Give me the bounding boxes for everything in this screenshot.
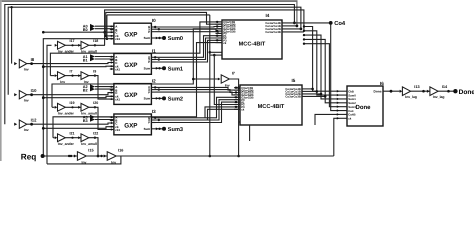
GXP I0 pin B arrow: [111, 28, 113, 30]
MCC I5 pin G0orG0B stub: [234, 89, 240, 91]
junction ckB node: [213, 54, 216, 57]
svg-text:I1: I1: [152, 48, 156, 53]
wire Sum3 port: [156, 128, 165, 130]
MCC I5 pin P1 stub: [234, 101, 240, 103]
arrow Sum0: [156, 37, 159, 40]
GXP I0 pin A stub: [110, 25, 114, 27]
wire chain0 output loop: [105, 10, 304, 45]
junction riser A row2: [42, 96, 45, 99]
svg-text:Sum3: Sum3: [168, 127, 183, 133]
arrow Sum2: [156, 97, 159, 100]
GXP I2 pin A arrow: [111, 86, 113, 88]
svg-text:MCC-4BIT: MCC-4BIT: [258, 104, 285, 110]
wire carry wrap W1 (top, thick): [2, 1, 297, 26]
junction Done out: [390, 90, 393, 93]
wire buffer I12 output: [27, 123, 114, 124]
MCC I5 pin G2orG2B stub: [234, 94, 240, 96]
wire chain0 out to loop: [89, 44, 105, 46]
input arrow chain3 inv2: [78, 136, 81, 139]
GXP I3 pin ck stub: [110, 126, 114, 128]
inverter I7: [58, 72, 66, 80]
svg-text:Done: Done: [459, 89, 474, 96]
junction buffer I12 out: [30, 123, 33, 126]
inverter I22: [81, 134, 89, 142]
input arrow buffer I8: [14, 62, 17, 65]
MCC I5 pin P0 stub: [234, 99, 240, 101]
junction MCC I4 pin9: [216, 39, 218, 41]
MCC I4 pin ckB stub: [210, 54, 222, 56]
GXP block I3: [114, 114, 151, 135]
junction carry C1 tap: [303, 25, 305, 27]
wire X1 to MCC I4: [156, 38, 223, 60]
wire X3 to MCC I5: [156, 100, 241, 120]
inverter I18: [81, 41, 89, 49]
svg-text:Inv: Inv: [24, 99, 29, 103]
svg-text:I20: I20: [93, 101, 98, 105]
GXP I2 pin B stub: [110, 89, 114, 91]
wire B2 to GXP: [95, 88, 114, 90]
GXP I0 pin C arrow: [111, 31, 113, 33]
wire chain2 out to next row ck1: [89, 107, 114, 129]
svg-text:P: P: [148, 60, 150, 64]
GXP I0 pin ck stub: [110, 35, 114, 37]
junction C0 crossing: [103, 31, 106, 34]
MCC I5 pin ck stub: [234, 108, 240, 110]
svg-text:Inv: Inv: [24, 128, 29, 132]
svg-text:I15: I15: [88, 149, 93, 153]
GXP I2 pin A stub: [110, 86, 114, 88]
arrow Sum3: [156, 127, 159, 130]
svg-text:ck1: ck1: [115, 128, 120, 132]
junction Sum3: [158, 128, 160, 130]
junction Sum1: [158, 67, 160, 69]
wire Sum1 port: [156, 67, 165, 69]
junction carry C2 tap: [303, 30, 305, 32]
GXP I0 pin ck arrow: [111, 35, 113, 37]
GXP I0 pin X stub: [151, 28, 155, 30]
GXP I0 pin B stub: [110, 29, 114, 31]
GXP I0 pin P stub: [151, 31, 155, 33]
MCC I5 pin P3 stub: [234, 106, 240, 108]
junction I7 input tap: [192, 78, 195, 81]
GXP I1 pin Sum stub: [151, 67, 155, 69]
junction chain0 mid: [71, 44, 73, 46]
svg-text:I2: I2: [152, 78, 156, 83]
wire A0 to GXP: [95, 25, 114, 27]
svg-text:GXP: GXP: [124, 62, 137, 69]
junction MCC I4 pin7: [216, 35, 218, 37]
GXP I1 pin G stub: [151, 56, 155, 58]
svg-text:I4: I4: [266, 13, 270, 18]
junction chain1 mid: [71, 75, 73, 77]
input arrow inverter I13: [400, 90, 403, 93]
buffer I12: [19, 120, 27, 128]
svg-text:I22: I22: [93, 132, 98, 136]
inverter I9: [81, 72, 89, 80]
wire B0 to GXP: [95, 28, 114, 30]
svg-text:B1: B1: [83, 58, 88, 62]
GXP I3 pin ck1 stub: [110, 129, 114, 131]
Done pin Co4 stub: [340, 110, 347, 112]
Done pin Co4B arrow: [337, 113, 339, 116]
svg-text:I8: I8: [31, 57, 35, 62]
svg-text:ck: ck: [223, 41, 227, 45]
GXP I0 pin ck1 arrow: [111, 38, 113, 40]
MCC-4BIT block I5: [240, 85, 302, 125]
junction Sum0: [158, 37, 160, 39]
inverter I14: [430, 87, 438, 96]
svg-text:B0: B0: [83, 28, 88, 32]
wire P0 to MCC I4: [156, 32, 223, 34]
wire I4 ckB down to MCC I5: [214, 55, 240, 104]
wire A1 to GXP: [95, 56, 114, 58]
MCC I5 pin G1orG1B stub: [234, 92, 240, 94]
port dot Sum1: [162, 66, 166, 70]
svg-text:Sum1: Sum1: [168, 66, 183, 72]
junction chain3 mid: [71, 137, 73, 139]
svg-text:P: P: [148, 30, 150, 34]
svg-text:Co4: Co4: [334, 20, 346, 27]
svg-text:I18: I18: [93, 39, 98, 43]
svg-text:Sum0: Sum0: [168, 36, 183, 42]
wire row3 ck feed: [43, 127, 114, 129]
svg-text:Req: Req: [21, 153, 36, 162]
svg-text:P: P: [148, 121, 150, 125]
svg-text:GXP: GXP: [124, 92, 137, 99]
GXP I1 pin ck1 stub: [110, 68, 114, 70]
junction third loop at ck1: [106, 37, 109, 40]
wire carry wrap W3: [8, 7, 301, 95]
Done pin Sum2 stub: [340, 102, 347, 104]
wire chain1 out to next row ck1: [89, 76, 114, 100]
svg-text:I16: I16: [118, 149, 123, 153]
svg-text:I19: I19: [70, 101, 75, 105]
wire B3 to GXP: [95, 119, 114, 121]
Done pin CkB arrow: [337, 90, 339, 93]
wire ck0 tap to GXP I0 ck pin: [106, 35, 114, 37]
wire third I0 loop top: [107, 14, 210, 16]
GXP I3 pin A stub: [110, 116, 114, 118]
junction X0 tap: [158, 28, 160, 30]
wire chain3 out down to Req wire: [89, 138, 98, 156]
svg-text:Sum2: Sum2: [168, 97, 183, 103]
svg-text:I7: I7: [232, 72, 235, 76]
svg-text:Co3orCo3B: Co3orCo3B: [285, 95, 300, 99]
MCC I4 pin ck stub: [210, 51, 222, 53]
junction G2 tap: [154, 86, 156, 88]
GXP I1 pin ck stub: [110, 65, 114, 67]
junction X3 tap: [158, 119, 160, 121]
wire G2 to MCC I5: [156, 87, 241, 90]
wire Done pin7 feed: [315, 114, 340, 125]
inverter I15: [77, 152, 86, 161]
svg-text:I21: I21: [70, 132, 75, 136]
junction G3 tap: [154, 117, 156, 119]
GXP I2 pin ck arrow: [111, 95, 113, 97]
inverter I16: [107, 152, 116, 161]
svg-text:Sum: Sum: [144, 127, 151, 131]
junction Req chain tap2: [70, 155, 72, 157]
GXP I0 pin A arrow: [111, 25, 113, 27]
junction carry C4 tap: [303, 38, 305, 40]
wire buffer I10 output: [27, 93, 114, 95]
wire carry C5 down to Done: [304, 44, 340, 107]
MCC I4 pin P2 stub: [216, 37, 223, 39]
wire X0 to MCC I4: [156, 29, 223, 31]
wire chain1 mid: [65, 75, 81, 77]
wire MCC I5 pin9 feed: [205, 107, 240, 118]
wire G3 to MCC I5: [156, 97, 241, 118]
wire row2 ck feed: [43, 96, 114, 97]
Done block I6: [347, 86, 383, 126]
wire Co3 wrap stub: [282, 31, 304, 33]
wire Co4 down to Done: [331, 25, 340, 111]
inverter I13: [402, 87, 410, 96]
port dot Req: [41, 154, 45, 158]
junction W2/Co4 line: [293, 22, 296, 25]
svg-text:I10: I10: [31, 88, 37, 93]
port B2 marker: [90, 87, 95, 92]
input arrow chain0 inv2: [78, 44, 81, 47]
wire chain3 mid: [65, 137, 81, 139]
port A1 marker: [90, 54, 95, 59]
input arrow chain0 inv1: [55, 44, 58, 47]
input arrow chain2 inv2: [78, 106, 81, 109]
wire to Done port: [438, 90, 455, 92]
port dot Sum0: [162, 36, 166, 40]
GXP I3 pin ck1 arrow: [111, 128, 113, 130]
inverter I20: [81, 103, 89, 111]
junction before Done port: [447, 90, 450, 93]
GXP I1 pin C arrow: [111, 61, 113, 63]
junction I7 out at I5 Cin: [237, 86, 240, 89]
arrow Sum1: [156, 67, 159, 70]
junction chain3/Req wire: [97, 155, 100, 158]
wire P3 to MCC I5: [156, 102, 241, 122]
svg-text:I7: I7: [70, 69, 73, 73]
junction chain3 out: [94, 137, 96, 139]
GXP I3 pin Sum stub: [151, 128, 155, 130]
GXP I1 pin B stub: [110, 59, 114, 61]
junction I5 Co2 at bus: [316, 90, 319, 93]
wire Req main: [45, 155, 334, 157]
wire MCC I5 Co3 join: [302, 93, 321, 95]
svg-text:I3: I3: [152, 109, 156, 114]
GXP I2 pin C arrow: [111, 91, 113, 93]
svg-text:Sum: Sum: [144, 97, 151, 101]
wire carry wrap W4 riser: [11, 7, 13, 63]
GXP I3 pin P stub: [151, 122, 155, 124]
wire chain1 input: [50, 75, 54, 77]
wire Sum2 port: [156, 97, 165, 99]
junction buffer I10 out: [30, 93, 33, 96]
GXP I0 pin Sum stub: [151, 37, 155, 39]
MCC I5 bottom stub: [249, 125, 251, 141]
input arrow inverter I14: [427, 90, 430, 93]
wire A3 to GXP: [95, 116, 114, 118]
MCC I4 pin P0 stub: [216, 32, 223, 34]
MCC-4BIT block I4: [222, 20, 282, 59]
wire Done output: [383, 90, 400, 92]
wire Req riser A (x43.3): [43, 39, 114, 156]
wire Req riser B (x47): [47, 45, 52, 164]
junction Req chain tap1: [68, 155, 70, 157]
junction C0 at riser: [42, 31, 45, 34]
wire chain2 input: [52, 106, 55, 108]
junction I5 Co3 at bus: [320, 93, 323, 96]
inverter I7: [221, 75, 229, 83]
buffer I8: [19, 59, 27, 67]
junction MCC I5 pin3: [235, 91, 237, 93]
svg-text:MCC-4BIT: MCC-4BIT: [239, 42, 266, 48]
GXP I2 pin ck1 arrow: [111, 98, 113, 100]
wire A2 to GXP: [95, 86, 114, 88]
wire MCC I5 Co4 join: [302, 95, 325, 97]
port A3 marker: [90, 115, 95, 120]
wire I13 to I14: [411, 90, 430, 92]
junction G0 tap: [154, 26, 156, 28]
GXP I0 pin ck1 stub: [110, 38, 114, 40]
junction chain1 out: [94, 74, 96, 76]
input arrow inverter I16: [104, 155, 107, 158]
svg-text:I0: I0: [152, 18, 156, 23]
svg-text:Inv_ander: Inv_ander: [58, 142, 75, 146]
GXP I2 pin X stub: [151, 89, 155, 91]
svg-text:GXP: GXP: [124, 122, 137, 129]
wire Sum0 port: [156, 37, 165, 39]
svg-text:ck: ck: [241, 108, 245, 112]
Done pin CkB stub: [340, 90, 347, 92]
window top edge: [0, 0, 298, 2]
input arrow I7: [218, 78, 221, 81]
GXP I3 pin B arrow: [111, 119, 113, 121]
svg-text:Inv: Inv: [82, 160, 87, 164]
junction X1 tap: [158, 58, 160, 60]
GXP block I2: [114, 84, 151, 105]
wire carry wrap W2: [5, 5, 295, 125]
junction X2 tap: [158, 88, 160, 90]
wire G0 to MCC I4: [156, 26, 223, 29]
port A2 marker: [90, 84, 95, 89]
junction MCC I5 pin7: [235, 101, 237, 103]
svg-text:Inv: Inv: [84, 80, 89, 84]
GXP I2 pin G stub: [151, 86, 155, 88]
junction W3/Co2 line: [300, 28, 303, 31]
wire Co1 wrap stub: [282, 25, 297, 27]
svg-text:Done: Done: [356, 104, 372, 111]
wire Co4 to port: [282, 22, 331, 24]
svg-text:B3: B3: [83, 119, 88, 123]
svg-text:I13: I13: [414, 85, 419, 89]
port dot Co4: [329, 21, 333, 25]
port B1 marker: [90, 57, 95, 62]
junction I13 out: [422, 90, 425, 93]
wire C0 feed: [43, 31, 114, 33]
port A0 marker: [90, 24, 95, 29]
Done pin Co4 arrow: [337, 109, 339, 112]
port B0 marker: [90, 26, 95, 31]
MCC I4 pin G1orG1B stub: [216, 26, 223, 28]
Done pin Co4B stub: [340, 113, 347, 115]
wire carry C2 down to Done: [304, 31, 340, 95]
wire P2 to MCC I5: [156, 92, 241, 95]
junction riser A row1: [42, 65, 45, 68]
GXP I2 pin B arrow: [111, 89, 113, 91]
input arrow chain1 inv2: [78, 74, 81, 77]
junction I7 out at Req wire: [237, 155, 240, 158]
svg-text:ck1: ck1: [115, 97, 120, 101]
wire MCC I5 Co2 join: [302, 90, 317, 92]
svg-text:I9: I9: [93, 69, 96, 73]
MCC I4 pin G0orG0B stub: [216, 23, 223, 25]
GXP I2 pin ck stub: [110, 95, 114, 97]
Done pin Sum0 stub: [340, 94, 347, 96]
wire chain3 input: [53, 137, 55, 139]
junction MCC I4 pin5: [216, 30, 218, 32]
junction carry C3 tap: [303, 34, 305, 36]
input arrow chain2 inv1: [55, 106, 58, 109]
svg-text:I14: I14: [442, 85, 448, 89]
svg-text:B2: B2: [83, 88, 88, 92]
svg-text:Sum: Sum: [144, 36, 151, 40]
junction ck riser at Req wire: [209, 155, 212, 158]
wire carry C4 down to Done: [304, 39, 340, 102]
GXP I3 pin C arrow: [111, 122, 113, 124]
Done pin Sum0 arrow: [337, 94, 339, 97]
wire carry C3 down to Done: [304, 35, 340, 99]
wire G1 to MCC I4: [156, 36, 223, 58]
wire ck loop row3: [53, 43, 222, 138]
inverter I21: [58, 134, 66, 142]
svg-text:Inv_amull: Inv_amull: [81, 142, 97, 146]
MCC I4 pin P3 stub: [216, 39, 223, 41]
wire X2 to MCC I5: [156, 90, 241, 93]
svg-text:Inv_ander: Inv_ander: [58, 112, 75, 116]
Done pin Sum3 stub: [340, 106, 347, 108]
port dot Done: [453, 89, 457, 93]
wire buffer I8 output: [27, 63, 114, 64]
wire third I0 loop: [209, 15, 211, 156]
wire row1 ck feed: [43, 65, 114, 68]
junction Co1/W1: [296, 25, 299, 28]
junction W4/W3 tee: [10, 6, 12, 8]
input arrow buffer I10: [14, 93, 17, 96]
GXP block I1: [114, 54, 151, 75]
wire Req to Done riser: [334, 118, 340, 156]
MCC I5 pin G3orG3B stub: [234, 96, 240, 98]
junction chain0 out: [94, 44, 96, 46]
Done pin ck arrow: [337, 117, 339, 120]
GXP I1 pin B arrow: [111, 59, 113, 61]
port dot Sum3: [162, 127, 166, 131]
GXP I1 pin A stub: [110, 56, 114, 58]
svg-text:I12: I12: [31, 118, 37, 123]
GXP I2 pin C stub: [110, 92, 114, 94]
MCC I5 pin P2 stub: [234, 104, 240, 106]
svg-text:I17: I17: [70, 39, 75, 43]
junction riser A row3: [42, 127, 45, 130]
GXP I1 pin C stub: [110, 62, 114, 64]
input arrow buffer I12: [14, 123, 17, 126]
svg-text:I6: I6: [380, 81, 384, 86]
svg-text:Inv_lag: Inv_lag: [405, 95, 417, 99]
GXP I0 pin C stub: [110, 31, 114, 33]
GXP I1 pin P stub: [151, 61, 155, 63]
junction ck0 tap: [104, 35, 107, 38]
MCC I4 pin P1 stub: [216, 35, 223, 37]
GXP I2 pin ck1 stub: [110, 98, 114, 100]
MCC I5 pin C0orC0B stub: [234, 87, 240, 89]
